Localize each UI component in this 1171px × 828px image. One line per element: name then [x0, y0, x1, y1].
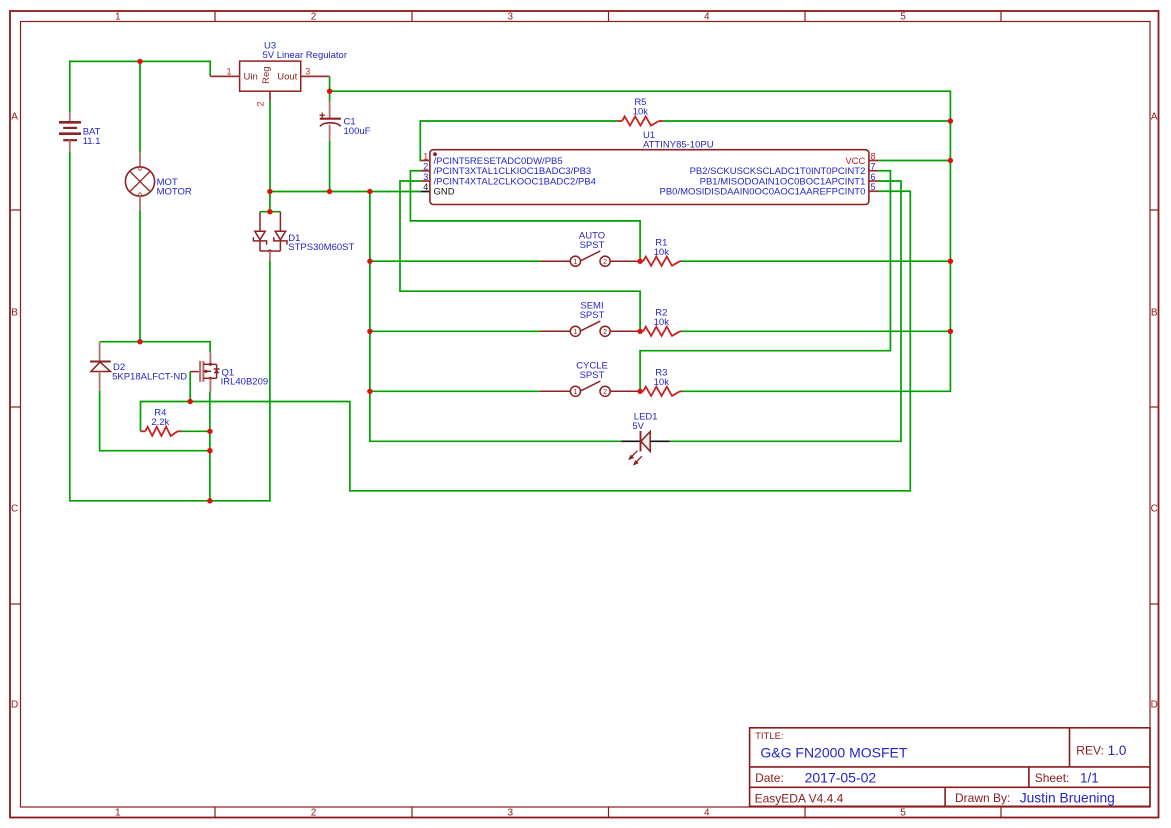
svg-text:Date:: Date:	[755, 771, 784, 785]
junction AUTO R1	[637, 259, 642, 264]
svg-text:10k: 10k	[654, 247, 670, 258]
svg-text:IRL40B209: IRL40B209	[221, 377, 269, 388]
junction R1 right	[948, 259, 953, 264]
wire C1 top	[329, 91, 331, 101]
svg-text:SPST: SPST	[580, 370, 605, 381]
svg-text:3: 3	[305, 66, 310, 76]
junction U3 out / C1	[327, 89, 332, 94]
wire CYCLE to pin7	[640, 171, 890, 392]
svg-text:1: 1	[226, 66, 231, 76]
wire battery positive to U3 Uin	[70, 61, 210, 112]
svg-text:2: 2	[603, 387, 607, 396]
svg-text:/PCINT4XTAL2CLKOOC1BADC2/PB4: /PCINT4XTAL2CLKOOC1BADC2/PB4	[434, 176, 596, 187]
svg-text:REV:: REV:	[1076, 744, 1104, 758]
svg-text:SPST: SPST	[580, 310, 605, 321]
junction SEMI feed	[367, 329, 372, 334]
wire U3 pin2 to gnd rail	[269, 101, 271, 191]
U1 pin 3	[421, 180, 430, 182]
junction gnd rail left	[267, 189, 272, 194]
wire SEMI to pin3	[400, 181, 640, 331]
wire Q1 source down	[209, 392, 211, 501]
U3 pin 3 lead	[301, 75, 330, 77]
svg-text:4: 4	[423, 182, 428, 192]
svg-text:2: 2	[256, 101, 266, 106]
svg-text:1: 1	[423, 151, 428, 161]
svg-text:1.0: 1.0	[1108, 743, 1127, 758]
svg-text:5KP18ALFCT-ND: 5KP18ALFCT-ND	[112, 371, 187, 382]
junction gnd rail C1	[327, 189, 332, 194]
ic U1 ATTINY85-10PU body	[430, 150, 869, 205]
U1 pin 2	[421, 170, 430, 172]
wire R2 to VCC rail	[682, 330, 951, 332]
switch CYCLE SPST	[540, 381, 641, 396]
svg-text:C: C	[11, 504, 18, 515]
resistor R5 lead left	[618, 120, 623, 122]
svg-text:TITLE:: TITLE:	[755, 731, 784, 742]
svg-text:7: 7	[871, 162, 876, 172]
wire D2 top to Q1 drain	[100, 342, 211, 353]
wire R1 to VCC rail	[682, 260, 951, 262]
wire pin1 to R5	[420, 121, 617, 161]
svg-text:100uF: 100uF	[344, 126, 371, 137]
resistor R4 zigzag	[145, 427, 177, 436]
svg-text:6: 6	[871, 172, 876, 182]
svg-text:2: 2	[603, 327, 607, 336]
resistor R1 lead	[640, 260, 643, 262]
switch SEMI SPST	[540, 321, 641, 336]
resistor R1 zigzag	[643, 257, 680, 266]
svg-text:10k: 10k	[654, 317, 670, 328]
svg-text:10k: 10k	[633, 107, 649, 118]
resistor R2 zigzag	[643, 327, 680, 336]
junction bottom rail Q1 source	[207, 498, 212, 503]
svg-text:MOTOR: MOTOR	[157, 186, 192, 197]
resistor R2 lead right	[680, 330, 682, 332]
U1 pin 1	[421, 160, 430, 162]
wire gate down	[189, 372, 191, 402]
junction VCC pin8	[948, 158, 953, 163]
wire pin6 to LED	[670, 181, 901, 441]
svg-text:2: 2	[603, 257, 607, 266]
junction AUTO feed	[367, 259, 372, 264]
U1 pin 6	[869, 180, 879, 182]
wire motor top	[139, 61, 141, 152]
U1 pin 8	[869, 160, 879, 162]
wire R4 to Q1 source	[182, 430, 210, 432]
svg-text:2.2k: 2.2k	[151, 417, 169, 428]
svg-text:11.1: 11.1	[83, 136, 101, 147]
wire pin5 to gate row	[141, 191, 911, 491]
junction CYCLE R3	[637, 389, 642, 394]
svg-text:5V: 5V	[632, 421, 644, 432]
junction SEMI R2	[637, 329, 642, 334]
wire CYCLE feed	[370, 390, 540, 392]
U1 pin 5	[869, 190, 879, 192]
wire gnd pin4 stub	[421, 191, 430, 193]
wire R5 to VCC rail	[663, 120, 950, 122]
wire switch feed rail to LED	[370, 192, 621, 442]
svg-text:C: C	[1151, 504, 1158, 515]
wire gnd rail	[270, 191, 421, 193]
capacitor C1	[320, 101, 341, 140]
title block	[750, 728, 1150, 807]
junction R4 source	[207, 429, 212, 434]
resistor R3 zigzag	[643, 387, 680, 396]
junction D2 source row	[207, 448, 212, 453]
motor pin marks	[138, 168, 142, 170]
junction gate row	[188, 399, 193, 404]
junction CYCLE feed	[367, 389, 372, 394]
svg-text:A: A	[1151, 112, 1158, 123]
svg-text:G&G FN2000 MOSFET: G&G FN2000 MOSFET	[760, 744, 907, 760]
svg-text:1: 1	[573, 257, 577, 266]
junction D1 top	[267, 209, 272, 214]
battery BAT	[59, 112, 81, 151]
wire D2 bottom	[100, 391, 210, 451]
wire AUTO feed	[370, 260, 540, 262]
wire motor bottom	[139, 210, 141, 341]
svg-text:ATTINY85-10PU: ATTINY85-10PU	[643, 140, 714, 151]
svg-text:5: 5	[871, 182, 876, 192]
led LED1 arrows	[629, 451, 641, 465]
svg-text:B: B	[1151, 308, 1158, 319]
wire U3 out	[329, 76, 331, 91]
resistor R4 lead right	[178, 430, 182, 432]
U1 pin2 stub	[421, 170, 430, 172]
junction R2 right	[948, 329, 953, 334]
svg-text:PB0/MOSIDISDAAIN0OC0AOC1AAREFP: PB0/MOSIDISDAAIN0OC0AOC1AAREFPCINT0	[660, 187, 866, 198]
resistor R5 zigzag	[622, 116, 659, 125]
svg-text:2017-05-02: 2017-05-02	[805, 770, 877, 786]
diode D2 5KP18ALFCT-ND	[90, 342, 111, 391]
wire SEMI feed	[370, 330, 540, 332]
svg-text:8: 8	[871, 151, 876, 161]
svg-text:Uin: Uin	[244, 72, 258, 83]
wire battery negative / bottom rail	[70, 152, 270, 501]
svg-text:1: 1	[573, 327, 577, 336]
transistor Q1 IRL40B209	[190, 353, 219, 392]
junction motor bottom	[137, 339, 142, 344]
switch AUTO SPST	[540, 251, 641, 266]
svg-text:B: B	[11, 308, 18, 319]
wire AUTO to pin2	[410, 171, 640, 261]
resistor R5 lead right	[659, 120, 664, 122]
led LED1	[621, 440, 640, 442]
svg-text:GND: GND	[434, 187, 455, 198]
svg-text:Justin Bruening: Justin Bruening	[1020, 790, 1115, 805]
svg-text:5V Linear Regulator: 5V Linear Regulator	[263, 50, 348, 61]
U1 pin 7	[869, 170, 879, 172]
resistor R2 lead	[640, 330, 643, 332]
wire C1 bottom	[329, 141, 331, 192]
junction gnd rail switch rail	[367, 189, 372, 194]
regulator U3	[240, 61, 301, 91]
svg-text:1: 1	[573, 387, 577, 396]
junction motor top	[137, 59, 142, 64]
diode D1 STPS30M60ST	[253, 212, 287, 261]
resistor R3 lead	[640, 390, 643, 392]
svg-text:Uout: Uout	[277, 72, 297, 83]
svg-text:Drawn By:: Drawn By:	[955, 791, 1010, 805]
U3 pin 2 lead	[269, 91, 271, 101]
svg-text:10k: 10k	[654, 377, 670, 388]
svg-text:Reg: Reg	[261, 66, 272, 83]
resistor R4 lead left	[141, 430, 146, 432]
U3 pin 1 lead	[210, 75, 239, 77]
svg-text:D: D	[11, 700, 18, 711]
svg-text:1/1: 1/1	[1080, 771, 1099, 786]
wire D1 top	[269, 192, 271, 212]
svg-text:SPST: SPST	[580, 240, 605, 251]
motor MOT	[125, 153, 154, 211]
svg-text:Sheet:: Sheet:	[1035, 771, 1070, 785]
svg-text:3: 3	[423, 172, 428, 182]
svg-text:D: D	[1151, 700, 1158, 711]
svg-text:EasyEDA V4.4.4: EasyEDA V4.4.4	[755, 791, 844, 805]
resistor R3 lead right	[680, 390, 682, 392]
wire VCC rail top and right	[330, 91, 951, 391]
resistor R1 lead right	[680, 260, 682, 262]
svg-text:A: A	[11, 112, 18, 123]
wire pin8 VCC	[879, 160, 951, 162]
svg-text:STPS30M60ST: STPS30M60ST	[288, 242, 354, 253]
junction R5 right	[948, 118, 953, 123]
